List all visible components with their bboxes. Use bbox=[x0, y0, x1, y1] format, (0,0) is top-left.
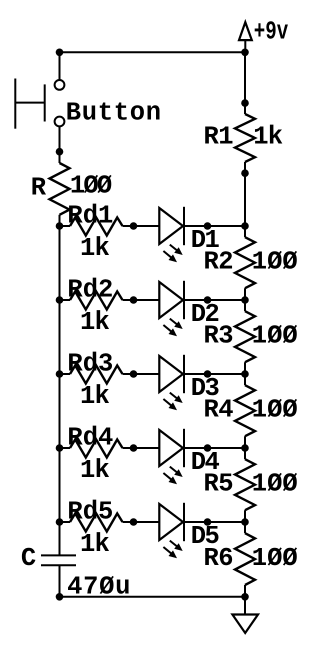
svg-text:Rd5: Rd5 bbox=[67, 497, 113, 526]
pushbutton S1 "Button" bbox=[15, 79, 64, 129]
resistor Rd5 1k bbox=[60, 521, 71, 523]
svg-text:1ØØ: 1ØØ bbox=[252, 544, 298, 573]
wire to ground bbox=[244, 597, 246, 615]
wire top rail bbox=[60, 51, 246, 53]
wire to LED D5 bbox=[134, 521, 160, 523]
resistor Rd2 1k bbox=[60, 299, 71, 301]
LED D4 arrows bbox=[170, 467, 180, 475]
wire power to top rail bbox=[244, 40, 246, 52]
svg-text:R2: R2 bbox=[204, 248, 234, 277]
wire LED to right rail bbox=[184, 299, 245, 301]
node above R1 bbox=[241, 99, 249, 107]
svg-text:1ØØ: 1ØØ bbox=[252, 248, 298, 277]
wire LED to right rail bbox=[184, 373, 245, 375]
svg-text:Rd4: Rd4 bbox=[67, 423, 113, 452]
resistor R6 100 bbox=[244, 522, 246, 533]
resistor R1 1k bbox=[244, 103, 246, 114]
svg-text:1ØØ: 1ØØ bbox=[70, 171, 112, 200]
svg-text:Rd2: Rd2 bbox=[67, 275, 113, 304]
LED D1 arrows bbox=[170, 245, 180, 253]
wire LED to right rail bbox=[184, 225, 245, 227]
node stage2 mid junction bbox=[130, 296, 138, 304]
node stage4 mid junction bbox=[130, 444, 138, 452]
wire to LED D1 bbox=[134, 225, 160, 227]
svg-text:1k: 1k bbox=[80, 234, 110, 263]
resistor R3 100 bbox=[244, 300, 246, 311]
svg-text:1k: 1k bbox=[80, 308, 110, 337]
wire left rail stages bbox=[59, 226, 61, 522]
node top-left junction bbox=[56, 49, 64, 57]
svg-text:Rd3: Rd3 bbox=[67, 349, 113, 378]
svg-text:R: R bbox=[31, 174, 47, 203]
svg-text:1k: 1k bbox=[80, 382, 110, 411]
LED D1 bbox=[159, 208, 183, 244]
node bottom-right junction bbox=[241, 593, 249, 601]
wire capacitor to bottom rail bbox=[59, 565, 61, 597]
svg-text:1k: 1k bbox=[80, 530, 110, 559]
node stage5 right rail junction bbox=[241, 518, 249, 526]
svg-text:R3: R3 bbox=[204, 322, 234, 351]
resistor Rd1 1k bbox=[60, 225, 71, 227]
resistor R4 100 bbox=[244, 374, 246, 385]
resistor Rd3 1k bbox=[60, 373, 71, 375]
svg-text:1ØØ: 1ØØ bbox=[252, 396, 298, 425]
node stage4 cathode junction bbox=[204, 444, 212, 452]
svg-text:R4: R4 bbox=[204, 396, 234, 425]
node stage2 left junction bbox=[56, 296, 64, 304]
node stage3 cathode junction bbox=[204, 370, 212, 378]
svg-text:C: C bbox=[21, 544, 36, 573]
node above R bbox=[56, 148, 64, 156]
wire bottom rail bbox=[60, 596, 246, 598]
svg-text:Button: Button bbox=[66, 98, 162, 127]
node stage5 cathode junction bbox=[204, 518, 212, 526]
resistor R5 100 bbox=[244, 448, 246, 459]
wire to LED D2 bbox=[134, 299, 160, 301]
wire LED to right rail bbox=[184, 521, 245, 523]
node stage1 cathode junction bbox=[204, 222, 212, 230]
node stage3 left junction bbox=[56, 370, 64, 378]
LED D3 arrows bbox=[170, 393, 180, 401]
node stage1 right rail junction bbox=[241, 222, 249, 230]
svg-text:R6: R6 bbox=[204, 544, 234, 573]
wire R1 to stage1 bbox=[244, 173, 246, 226]
LED D2 arrows bbox=[170, 319, 180, 327]
node stage5 left junction bbox=[56, 518, 64, 526]
node stage1 mid junction bbox=[130, 222, 138, 230]
node stage3 right rail junction bbox=[241, 370, 249, 378]
svg-text:Rd1: Rd1 bbox=[67, 201, 113, 230]
svg-text:R1: R1 bbox=[204, 123, 234, 152]
wire left rail to button bbox=[59, 52, 61, 80]
svg-text:1k: 1k bbox=[80, 456, 110, 485]
node below R1 bbox=[241, 169, 249, 177]
wire LED to right rail bbox=[184, 447, 245, 449]
wire button to R bbox=[59, 126, 61, 151]
node stage5 mid junction bbox=[130, 518, 138, 526]
wire right rail top bbox=[244, 52, 246, 103]
LED D5 bbox=[159, 504, 183, 540]
LED D5 arrows bbox=[170, 541, 180, 549]
node stage1 left junction bbox=[56, 222, 64, 230]
node stage3 mid junction bbox=[130, 370, 138, 378]
svg-text:+9v: +9v bbox=[254, 17, 288, 46]
LED D2 bbox=[159, 282, 183, 318]
resistor R 100 bbox=[59, 152, 61, 163]
capacitor C 470u bbox=[41, 554, 76, 556]
node bottom-left junction bbox=[56, 593, 64, 601]
node stage4 left junction bbox=[56, 444, 64, 452]
ground bbox=[232, 615, 258, 634]
power symbol +9v bbox=[239, 22, 252, 40]
LED D3 bbox=[159, 356, 183, 392]
node stage2 cathode junction bbox=[204, 296, 212, 304]
svg-text:1ØØ: 1ØØ bbox=[252, 322, 298, 351]
wire left rail to capacitor bbox=[59, 522, 61, 555]
node stage2 right rail junction bbox=[241, 296, 249, 304]
node stage4 right rail junction bbox=[241, 444, 249, 452]
wire to LED D4 bbox=[134, 447, 160, 449]
svg-text:1ØØ: 1ØØ bbox=[252, 470, 298, 499]
svg-text:R5: R5 bbox=[204, 470, 234, 499]
node top-right junction bbox=[241, 49, 249, 57]
resistor R2 100 bbox=[244, 226, 246, 237]
svg-text:1k: 1k bbox=[253, 123, 283, 152]
wire to LED D3 bbox=[134, 373, 160, 375]
LED D4 bbox=[159, 430, 183, 466]
resistor Rd4 1k bbox=[60, 447, 71, 449]
